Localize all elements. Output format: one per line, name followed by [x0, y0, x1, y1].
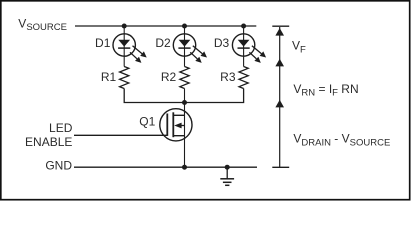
- wire: GND rail: [74, 166, 257, 168]
- svg-text:GND: GND: [45, 159, 72, 173]
- svg-text:D3: D3: [214, 36, 230, 50]
- measurement line ticks and arrows: [272, 25, 289, 27]
- svg-text:VF: VF: [292, 39, 306, 56]
- svg-text:R2: R2: [161, 70, 177, 84]
- resistor R3: [239, 67, 248, 89]
- svg-text:D2: D2: [155, 36, 171, 50]
- LED D1: [113, 34, 147, 63]
- wire: LED ENABLE to gate: [74, 134, 167, 136]
- resistor R2: [180, 67, 189, 89]
- svg-text:VSOURCE: VSOURCE: [18, 16, 67, 33]
- ground symbol: [220, 165, 234, 186]
- wire: VSOURCE top rail: [75, 25, 256, 27]
- LED D3: [232, 34, 266, 63]
- node: junction dot on VSOURCE rail at D1: [122, 24, 127, 29]
- node: junction dot on VSOURCE rail at D2: [182, 24, 187, 29]
- wire: anode lead column D2: [184, 26, 186, 67]
- wire: R2 bottom lead to drain rail: [184, 89, 186, 103]
- wire: anode lead column D1: [123, 26, 125, 67]
- wire: drain lead through FET to source: [184, 103, 186, 168]
- transistor Q1 (n-channel MOSFET): [160, 109, 192, 141]
- svg-text:R1: R1: [101, 70, 117, 84]
- svg-text:VRN = IF RN: VRN = IF RN: [293, 82, 358, 99]
- node: source junction dot on GND rail: [182, 165, 187, 170]
- resistor R1: [120, 67, 129, 89]
- node: junction dot on VSOURCE rail at D3: [241, 24, 246, 29]
- wire: anode lead column D3: [243, 26, 245, 67]
- svg-text:Q1: Q1: [139, 115, 155, 129]
- svg-text:VDRAIN - VSOURCE: VDRAIN - VSOURCE: [293, 132, 390, 149]
- svg-text:R3: R3: [220, 70, 236, 84]
- svg-text:LED: LED: [49, 121, 73, 135]
- svg-text:D1: D1: [95, 36, 111, 50]
- node: drain junction dot: [182, 100, 187, 105]
- wire: drain rail joining resistor bottoms: [124, 89, 243, 103]
- LED D2: [173, 34, 207, 63]
- svg-text:ENABLE: ENABLE: [25, 135, 72, 149]
